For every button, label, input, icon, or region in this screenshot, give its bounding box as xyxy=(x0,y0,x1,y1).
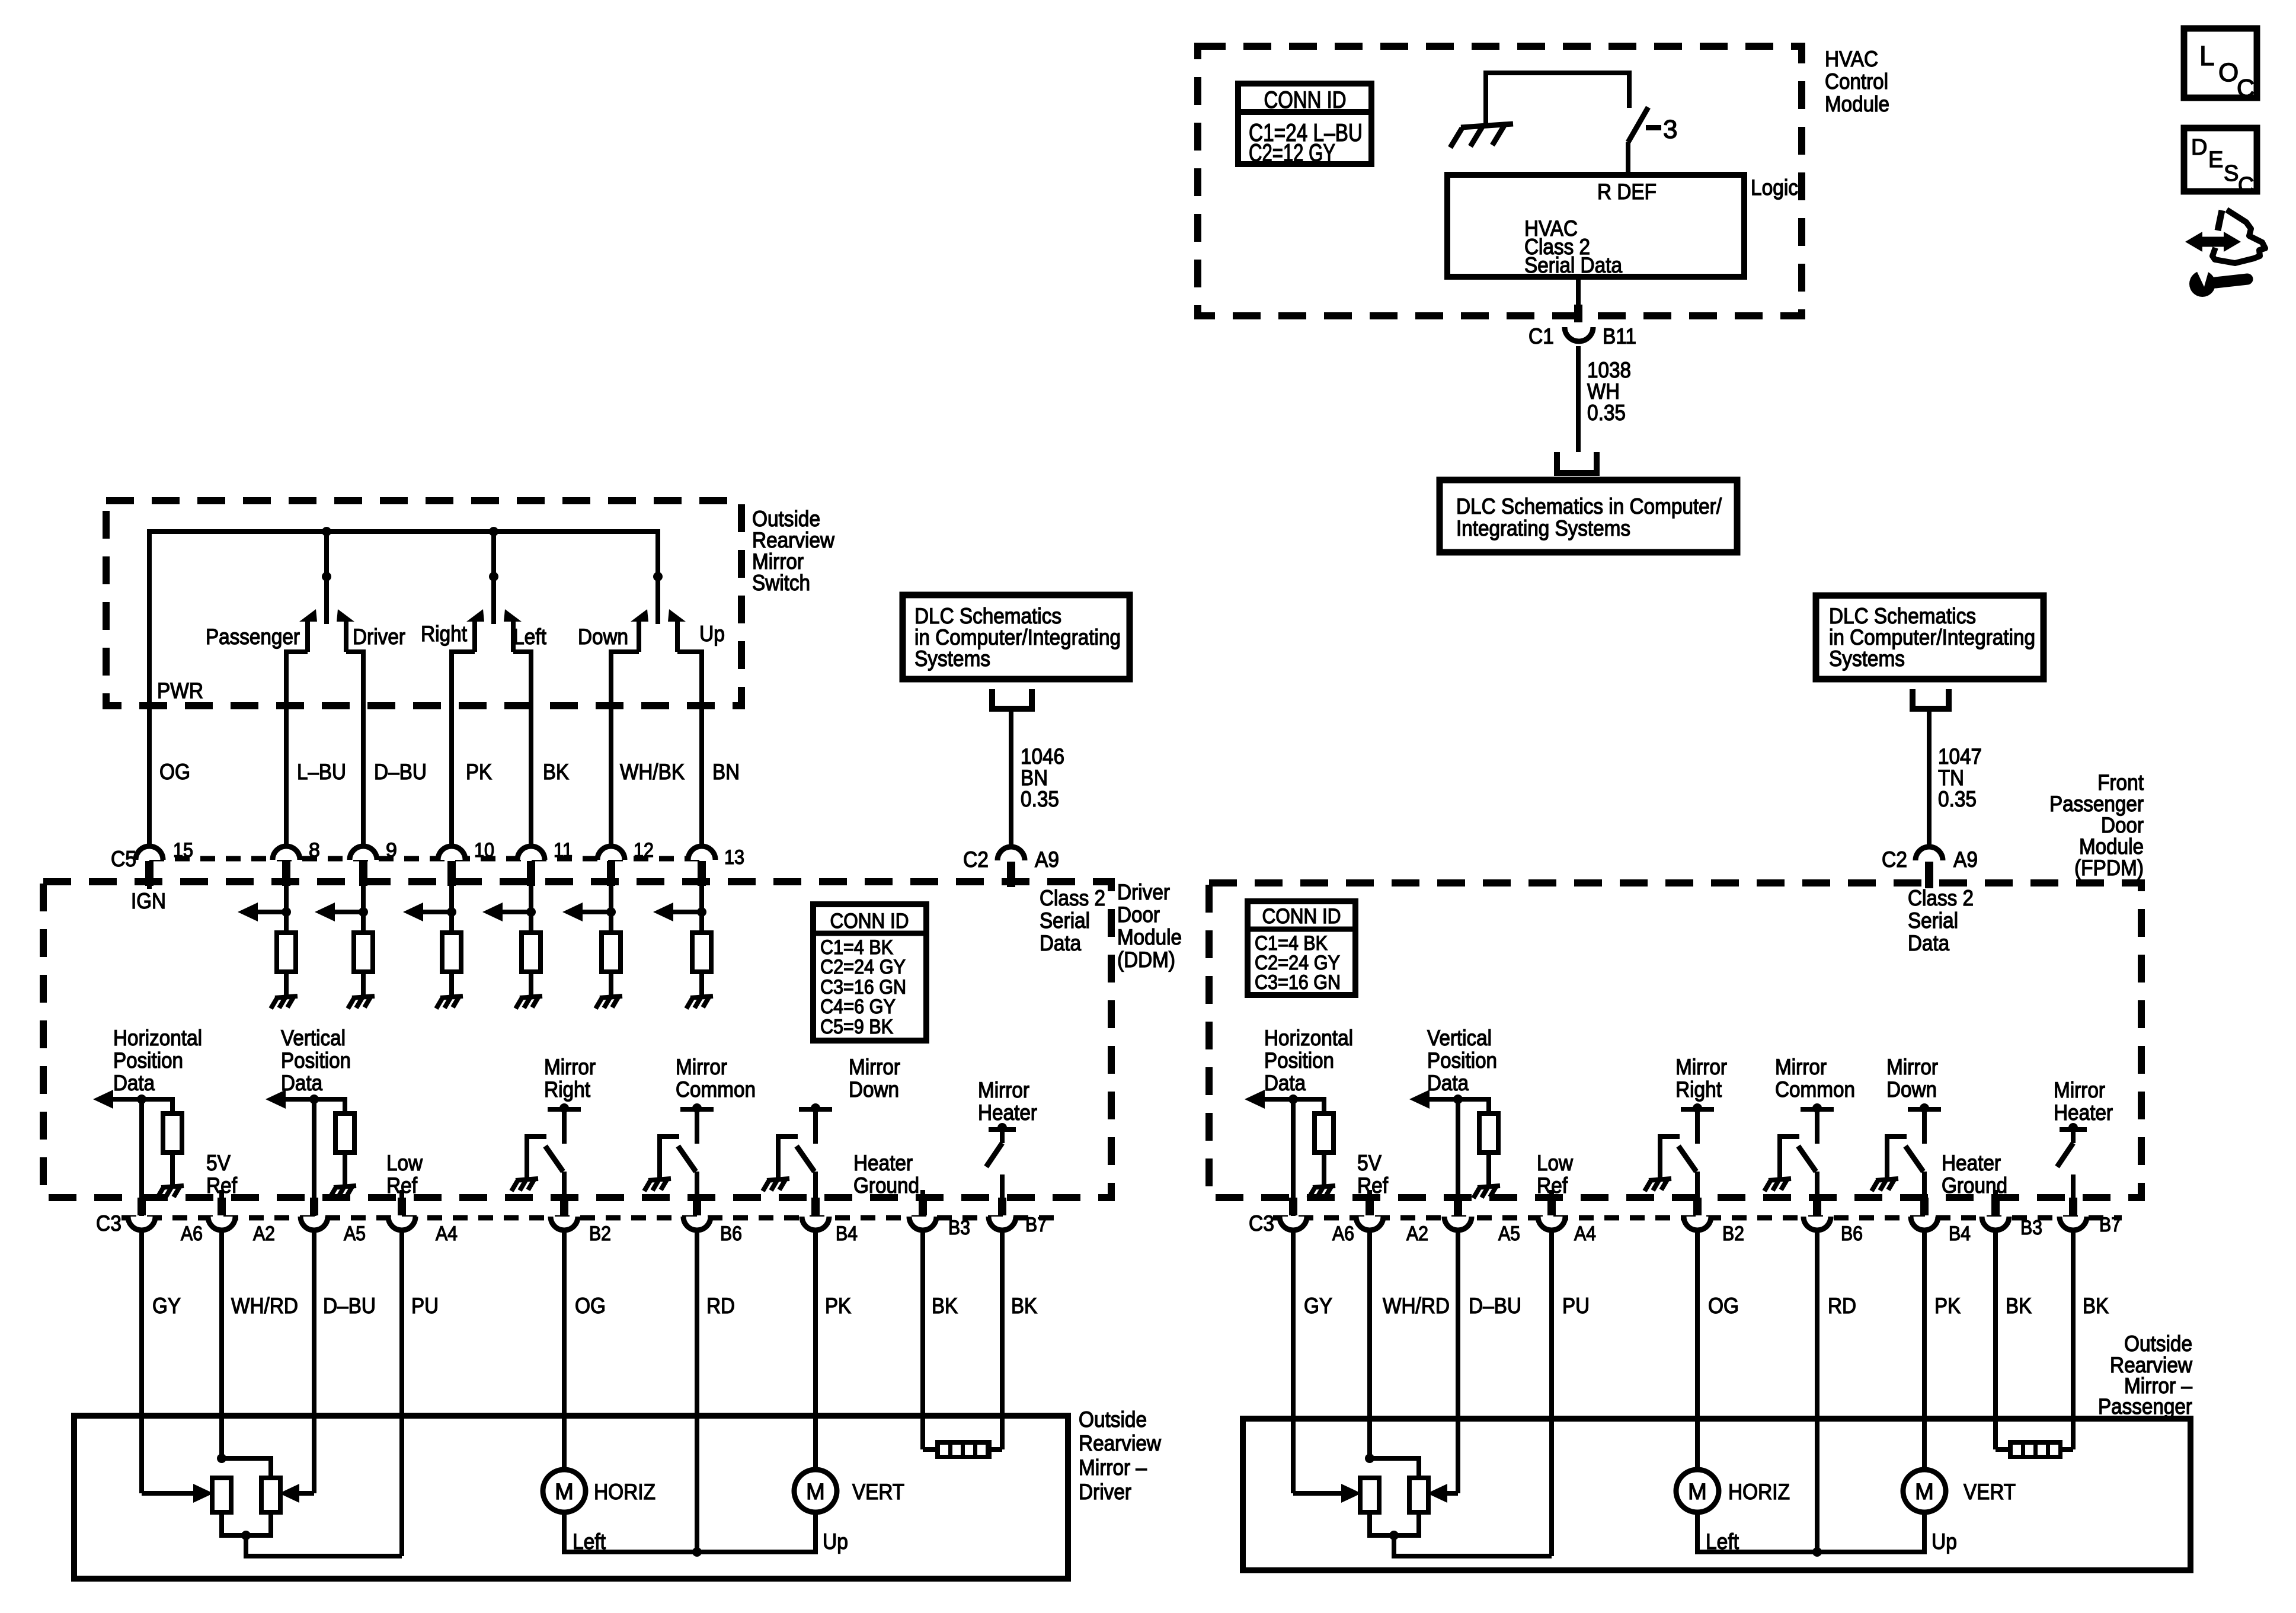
connector pin B4 (DDM) xyxy=(802,1217,829,1230)
wire pot top link (driver) xyxy=(222,1458,271,1478)
svg-text:M: M xyxy=(1915,1480,1934,1505)
svg-text:Systems: Systems xyxy=(1829,647,1905,671)
svg-text:Logic: Logic xyxy=(1751,175,1798,200)
connector pin 11 xyxy=(517,846,545,860)
bracket DLC right xyxy=(1913,689,1949,709)
connector pin A5 (DDM) xyxy=(300,1217,328,1230)
svg-text:B2: B2 xyxy=(1722,1222,1744,1245)
svg-text:Position: Position xyxy=(1427,1048,1497,1073)
svg-text:PWR: PWR xyxy=(157,679,203,703)
Driver Door Module dashed box xyxy=(43,882,1111,1198)
switch Mirror Common (FPDM) xyxy=(1801,1107,1834,1112)
svg-text:GY: GY xyxy=(1304,1294,1332,1318)
wire ground to switch xyxy=(1486,73,1629,126)
junction dot pot bottom (driver) xyxy=(241,1531,251,1540)
connector pin A2 (DDM) xyxy=(208,1217,235,1230)
wire BK (driver mirror) xyxy=(920,1231,925,1449)
svg-text:DLC Schematics: DLC Schematics xyxy=(914,604,1061,628)
svg-text:C1: C1 xyxy=(1528,324,1554,348)
svg-text:Systems: Systems xyxy=(914,647,990,671)
ground (FPDM vertical) xyxy=(1473,1186,1500,1198)
svg-text:Position: Position xyxy=(113,1048,183,1073)
wire BK b7 (passenger mirror) xyxy=(2071,1231,2076,1449)
svg-text:L–BU: L–BU xyxy=(297,760,346,784)
connector C2/A9 (DDM) xyxy=(997,847,1025,860)
svg-text:B6: B6 xyxy=(1841,1222,1863,1245)
connector pin B7 (FPDM) xyxy=(2060,1217,2087,1230)
svg-text:3: 3 xyxy=(1663,115,1677,144)
switch Down (blade + wire to pin 12) xyxy=(631,609,648,622)
svg-text:Heater: Heater xyxy=(1942,1151,2001,1175)
svg-text:12: 12 xyxy=(634,839,654,862)
resistor at x=1184 xyxy=(692,933,711,972)
svg-text:Heater: Heater xyxy=(978,1100,1037,1125)
svg-text:Switch: Switch xyxy=(752,571,810,595)
svg-text:IGN: IGN xyxy=(131,889,166,913)
svg-text:A5: A5 xyxy=(1498,1222,1520,1245)
Outside Rearview Mirror Passenger box xyxy=(1243,1419,2191,1570)
arrow position data (FPDM vertical) xyxy=(1428,1097,1458,1102)
wire pot bottom bar (passenger) xyxy=(1370,1512,1419,1535)
svg-text:OG: OG xyxy=(159,760,190,784)
wire pot bottom bar (driver) xyxy=(222,1512,271,1535)
svg-text:B7: B7 xyxy=(1025,1214,1047,1236)
svg-text:Right: Right xyxy=(544,1077,591,1102)
arrow (output) at x=1031 xyxy=(581,910,611,914)
switch Right (blade + wire to pin 10) xyxy=(466,609,484,622)
motor HORIZ (driver) xyxy=(543,1470,586,1512)
arrow (output) at x=896 xyxy=(501,910,531,914)
svg-text:Heater: Heater xyxy=(2054,1100,2113,1125)
svg-text:HORIZ: HORIZ xyxy=(1728,1480,1790,1504)
wire pin to resistor at x=613 xyxy=(361,883,366,933)
heater element (driver) xyxy=(923,1447,935,1452)
svg-text:Down: Down xyxy=(1886,1077,1937,1102)
CONN ID table (DDM) xyxy=(813,904,926,1041)
switch Mirror Heater (FPDM) xyxy=(2060,1127,2087,1132)
connector C2/A9 (FPDM) xyxy=(1916,847,1943,860)
ground wire at x=483 xyxy=(284,972,289,998)
ground wire at x=896 xyxy=(529,972,533,998)
arrow position data (DDM horizontal) xyxy=(112,1097,142,1102)
connector pin C3-A6 (DDM) xyxy=(128,1217,155,1230)
svg-text:(FPDM): (FPDM) xyxy=(2074,856,2144,880)
svg-text:C: C xyxy=(2237,74,2255,102)
svg-text:Ground: Ground xyxy=(853,1173,919,1198)
ground at x=762 xyxy=(436,996,463,1009)
svg-text:D–BU: D–BU xyxy=(374,760,427,784)
junction dot (FPDM horizontal) xyxy=(1288,1094,1298,1104)
connector pin C3-A6 (FPDM) xyxy=(1280,1217,1307,1230)
svg-text:8: 8 xyxy=(309,839,320,862)
connector bracket to DLC box xyxy=(1557,452,1597,473)
pin line (FPDM bottom row) xyxy=(1273,1215,2122,1221)
wire pot top link (passenger) xyxy=(1370,1458,1419,1478)
connector pin B7 (DDM) xyxy=(989,1217,1016,1230)
svg-text:C: C xyxy=(2238,173,2254,198)
svg-text:A9: A9 xyxy=(1035,847,1059,872)
ground at x=1184 xyxy=(686,996,713,1009)
HVAC Control Module dashed box xyxy=(1198,46,1802,316)
wire 1047 TN 0.35 xyxy=(1927,709,1932,846)
svg-text:Left: Left xyxy=(513,625,547,649)
bracket DLC left xyxy=(992,689,1032,709)
ground wire at x=613 xyxy=(361,972,366,998)
junction dot motor bus (driver) xyxy=(692,1547,702,1557)
svg-text:Up: Up xyxy=(1932,1529,1957,1554)
motor VERT (driver) xyxy=(794,1470,837,1512)
svg-text:Left: Left xyxy=(573,1529,606,1554)
connector pin B4 (FPDM) xyxy=(1911,1217,1938,1230)
resistor (DDM horizontal) xyxy=(163,1113,182,1153)
svg-text:Module: Module xyxy=(1117,925,1182,949)
resistor at x=613 xyxy=(354,933,373,972)
ground wire (DDM horizontal) xyxy=(170,1153,175,1186)
svg-text:GY: GY xyxy=(152,1294,181,1318)
svg-text:VERT: VERT xyxy=(1964,1480,2016,1504)
heater element (passenger) xyxy=(1996,1447,2008,1452)
junction dot motor bus (passenger) xyxy=(1812,1547,1822,1557)
ground (HVAC internal) xyxy=(1450,124,1513,148)
switch Passenger (blade + wire to pin 8) xyxy=(299,609,317,622)
wire WH/RD (driver mirror) xyxy=(219,1231,224,1458)
wire position data pin (DDM horizontal) xyxy=(139,1099,144,1216)
svg-text:9: 9 xyxy=(386,839,397,862)
svg-text:Driver: Driver xyxy=(353,625,405,649)
svg-text:B4: B4 xyxy=(836,1222,858,1245)
svg-text:Common: Common xyxy=(1775,1077,1855,1102)
switch Left (blade + wire to pin 11) xyxy=(504,609,522,622)
svg-text:Position: Position xyxy=(281,1048,351,1073)
resistor pot left (passenger) xyxy=(1360,1478,1379,1512)
svg-text:15: 15 xyxy=(173,839,193,862)
svg-text:1038: 1038 xyxy=(1587,358,1631,382)
svg-text:Mirror –: Mirror – xyxy=(1079,1455,1147,1480)
svg-text:OG: OG xyxy=(1708,1294,1739,1318)
svg-text:C3: C3 xyxy=(96,1211,121,1236)
resistor (DDM vertical) xyxy=(335,1113,354,1153)
svg-text:B6: B6 xyxy=(720,1222,742,1245)
svg-text:BK: BK xyxy=(1011,1294,1037,1318)
junction dot bus 1 xyxy=(322,527,331,536)
svg-text:B7: B7 xyxy=(2099,1214,2121,1236)
switch Driver (blade + wire to pin 9) xyxy=(337,609,354,622)
connector pin B3 (DDM) xyxy=(909,1217,936,1230)
wire GY wiper (passenger) xyxy=(1293,1491,1341,1496)
resistor at x=1031 xyxy=(602,933,621,972)
svg-text:Low: Low xyxy=(386,1151,423,1175)
svg-text:Mirror: Mirror xyxy=(1886,1055,1938,1079)
connector pin A4 (FPDM) xyxy=(1538,1217,1565,1230)
svg-text:5V: 5V xyxy=(1357,1151,1382,1175)
logic box (HVAC Class 2 Serial Data) xyxy=(1447,175,1744,277)
wire D-BU wiper (passenger) xyxy=(1447,1491,1458,1496)
DLC Schematics box (right) xyxy=(1816,596,2044,679)
svg-text:Mirror: Mirror xyxy=(676,1055,727,1079)
svg-text:A5: A5 xyxy=(344,1222,366,1245)
wire PU (passenger mirror) xyxy=(1549,1231,1554,1556)
svg-text:A2: A2 xyxy=(1406,1222,1428,1245)
svg-text:11: 11 xyxy=(554,839,573,862)
Front Passenger Door Module dashed box xyxy=(1209,883,2141,1198)
svg-text:C3=16 GN: C3=16 GN xyxy=(1255,971,1341,994)
svg-text:A6: A6 xyxy=(1332,1222,1354,1245)
svg-text:Up: Up xyxy=(699,622,725,646)
svg-text:CONN ID: CONN ID xyxy=(830,910,909,933)
wire D-BU (passenger mirror) xyxy=(1456,1231,1460,1493)
ground at x=613 xyxy=(348,996,375,1009)
junction dot pot bottom (passenger) xyxy=(1389,1531,1399,1540)
arrow (output) at x=762 xyxy=(422,910,452,914)
connector pin 10 xyxy=(438,846,465,860)
arrow (output) at x=483 xyxy=(257,910,286,914)
LOC icon xyxy=(2184,28,2257,98)
arrow position data (DDM vertical) xyxy=(284,1097,314,1102)
svg-text:R DEF: R DEF xyxy=(1597,180,1657,204)
svg-text:Serial Data: Serial Data xyxy=(1524,253,1622,277)
svg-text:Mirror: Mirror xyxy=(1675,1055,1727,1079)
svg-text:B11: B11 xyxy=(1603,324,1636,348)
svg-text:PK: PK xyxy=(825,1294,851,1318)
wire pin to resistor at x=762 xyxy=(449,883,454,933)
svg-text:in Computer/Integrating: in Computer/Integrating xyxy=(914,625,1121,649)
svg-text:M: M xyxy=(1688,1480,1707,1505)
switch Mirror Down (FPDM) xyxy=(1908,1107,1941,1112)
svg-text:Passenger: Passenger xyxy=(206,625,300,649)
junction dot (FPDM vertical) xyxy=(1453,1094,1463,1104)
svg-text:Down: Down xyxy=(849,1077,899,1102)
stub Heater Ground (FPDM) xyxy=(1993,1190,1998,1198)
supply wire pair 1 xyxy=(324,532,329,624)
svg-text:D: D xyxy=(2191,135,2207,160)
svg-text:Serial: Serial xyxy=(1040,908,1090,933)
wire BK (passenger mirror) xyxy=(1993,1231,1998,1449)
wire 1038 WH 0.35 xyxy=(1576,346,1581,452)
svg-text:Mirror: Mirror xyxy=(849,1055,900,1079)
svg-text:Down: Down xyxy=(578,625,628,649)
svg-text:BK: BK xyxy=(543,760,569,784)
wire GY wiper (driver) xyxy=(142,1491,193,1496)
connector pin B2 (FPDM) xyxy=(1684,1217,1711,1230)
wire pot bottom to Low Ref (driver) xyxy=(246,1535,402,1556)
connector pin B2 (DDM) xyxy=(551,1217,578,1230)
stub 5V Ref (DDM) xyxy=(219,1190,224,1198)
pin line (DDM bottom row) xyxy=(121,1215,1055,1221)
svg-text:Serial: Serial xyxy=(1908,908,1958,933)
switch R DEF (thermal) xyxy=(1628,107,1648,142)
svg-text:A9: A9 xyxy=(1953,847,1978,872)
wire to resistor (FPDM vertical) xyxy=(1458,1099,1489,1113)
svg-text:C3: C3 xyxy=(1249,1211,1274,1236)
svg-text:C2=24 GY: C2=24 GY xyxy=(820,956,906,978)
resistor (FPDM horizontal) xyxy=(1315,1113,1334,1153)
wire to resistor (DDM vertical) xyxy=(314,1099,345,1113)
motor VERT (passenger) xyxy=(1903,1470,1946,1512)
svg-text:B4: B4 xyxy=(1949,1222,1971,1245)
CONN ID table (FPDM) xyxy=(1248,901,1355,995)
ground wire (DDM vertical) xyxy=(343,1153,347,1186)
ground at x=896 xyxy=(516,996,542,1009)
wire PK (driver mirror) xyxy=(813,1231,818,1470)
junction dot bus 2 xyxy=(489,527,498,536)
svg-text:Data: Data xyxy=(113,1071,155,1095)
svg-text:B2: B2 xyxy=(589,1222,611,1245)
svg-text:M: M xyxy=(806,1480,825,1505)
svg-text:Ground: Ground xyxy=(1942,1173,2007,1198)
ground at x=1031 xyxy=(596,996,622,1009)
switch Up (blade + wire to pin 13) xyxy=(668,609,686,622)
wire PK (passenger mirror) xyxy=(1922,1231,1927,1470)
ground (FPDM horizontal) xyxy=(1309,1186,1335,1198)
svg-text:Data: Data xyxy=(281,1071,322,1095)
connector pin B6 (DDM) xyxy=(683,1217,711,1230)
svg-text:A6: A6 xyxy=(181,1222,203,1245)
svg-text:M: M xyxy=(555,1480,574,1505)
svg-text:Up: Up xyxy=(823,1529,848,1554)
svg-text:Low: Low xyxy=(1537,1151,1573,1175)
wire GY (passenger mirror) xyxy=(1291,1231,1296,1493)
svg-text:Class 2: Class 2 xyxy=(1908,886,1974,910)
ground (DDM horizontal) xyxy=(157,1186,184,1198)
svg-text:C2=12 GY: C2=12 GY xyxy=(1249,139,1335,167)
svg-text:Data: Data xyxy=(1264,1071,1306,1095)
svg-text:Horizontal: Horizontal xyxy=(113,1026,202,1050)
svg-text:Ref: Ref xyxy=(386,1173,418,1198)
resistor pot left (driver) xyxy=(212,1478,231,1512)
svg-text:C2: C2 xyxy=(963,847,989,872)
wire pin to resistor at x=896 xyxy=(529,883,533,933)
svg-text:DLC Schematics in Computer/: DLC Schematics in Computer/ xyxy=(1456,494,1722,519)
supply wire pair 2 xyxy=(491,532,496,624)
svg-text:L: L xyxy=(2199,40,2215,71)
svg-text:VERT: VERT xyxy=(852,1480,904,1504)
svg-text:B3: B3 xyxy=(2020,1217,2042,1239)
wire position data pin (FPDM vertical) xyxy=(1456,1099,1460,1216)
wire pin to resistor at x=1031 xyxy=(609,883,613,933)
svg-text:Passenger: Passenger xyxy=(2049,792,2144,816)
supply wire pair 3 xyxy=(655,577,660,624)
svg-text:HVAC: HVAC xyxy=(1825,47,1878,71)
svg-text:(DDM): (DDM) xyxy=(1117,948,1175,972)
switch Mirror Common (DDM) xyxy=(680,1107,714,1112)
svg-text:Horizontal: Horizontal xyxy=(1264,1026,1353,1050)
svg-text:Class 2: Class 2 xyxy=(1040,886,1105,910)
wire RD (driver mirror) xyxy=(695,1231,699,1552)
svg-text:Front: Front xyxy=(2097,770,2144,795)
wire logic box to C1 connector xyxy=(1576,277,1581,318)
connector pin B3 (FPDM) xyxy=(1982,1217,2009,1230)
svg-text:DLC Schematics: DLC Schematics xyxy=(1829,604,1976,628)
wire to resistor (DDM horizontal) xyxy=(142,1099,172,1113)
connector pin C5-15 xyxy=(136,846,163,860)
resistor at x=762 xyxy=(442,933,461,972)
arrow wiper left pot (passenger) xyxy=(1341,1484,1361,1503)
switch Mirror Right (FPDM) xyxy=(1681,1107,1714,1112)
svg-text:Vertical: Vertical xyxy=(1427,1026,1492,1050)
wire GY (driver mirror) xyxy=(139,1231,144,1493)
Outside Rearview Mirror Driver box xyxy=(74,1416,1068,1579)
connector pin A2 (FPDM) xyxy=(1356,1217,1383,1230)
svg-text:A4: A4 xyxy=(436,1222,458,1245)
svg-text:C5=9 BK: C5=9 BK xyxy=(820,1016,893,1038)
svg-text:BN: BN xyxy=(1021,766,1048,790)
resistor at x=896 xyxy=(522,933,541,972)
svg-text:Mirror: Mirror xyxy=(752,549,804,574)
wire D-BU wiper (driver) xyxy=(299,1491,314,1496)
svg-text:D–BU: D–BU xyxy=(323,1294,376,1318)
svg-text:WH/BK: WH/BK xyxy=(620,760,685,784)
svg-text:Control: Control xyxy=(1825,69,1888,94)
svg-text:WH: WH xyxy=(1587,379,1620,404)
svg-text:Ref: Ref xyxy=(206,1173,238,1198)
wire RD (passenger mirror) xyxy=(1815,1231,1819,1552)
wire OG (passenger mirror) xyxy=(1695,1231,1700,1470)
wire IGN stub xyxy=(147,883,152,889)
svg-text:BN: BN xyxy=(712,760,740,784)
motor HORIZ (passenger) xyxy=(1676,1470,1719,1512)
svg-text:1046: 1046 xyxy=(1021,744,1064,769)
wire BK b7 (driver mirror) xyxy=(1000,1231,1005,1449)
ground (DDM vertical) xyxy=(330,1186,356,1198)
stub Low Ref (DDM) xyxy=(399,1190,404,1198)
resistor (FPDM vertical) xyxy=(1479,1113,1498,1153)
svg-text:5V: 5V xyxy=(206,1151,231,1175)
svg-text:Door: Door xyxy=(1117,902,1160,927)
wire D-BU (driver mirror) xyxy=(312,1231,316,1493)
svg-text:1047: 1047 xyxy=(1938,744,1982,769)
switch Mirror Down (DDM) xyxy=(799,1107,832,1112)
svg-text:RD: RD xyxy=(706,1294,735,1318)
resistor at x=483 xyxy=(277,933,296,972)
arrow wiper right pot (passenger) xyxy=(1427,1484,1447,1503)
svg-text:Left: Left xyxy=(1706,1529,1739,1554)
svg-text:Module: Module xyxy=(2079,834,2144,859)
wire OG (PWR to C5-15) xyxy=(147,706,152,845)
svg-text:Mirror: Mirror xyxy=(544,1055,596,1079)
svg-text:B3: B3 xyxy=(948,1217,970,1239)
CONN ID table (HVAC) xyxy=(1238,84,1371,164)
svg-text:Mirror: Mirror xyxy=(978,1078,1029,1102)
connector pin A5 (FPDM) xyxy=(1444,1217,1472,1230)
svg-text:Rearview: Rearview xyxy=(1079,1431,1161,1455)
svg-text:A2: A2 xyxy=(253,1222,275,1245)
svg-text:Ref: Ref xyxy=(1357,1173,1389,1198)
svg-text:Passenger: Passenger xyxy=(2098,1394,2192,1419)
svg-text:0.35: 0.35 xyxy=(1587,401,1626,425)
connector pin B6 (FPDM) xyxy=(1803,1217,1831,1230)
ground wire at x=1184 xyxy=(699,972,704,998)
junction dot pot top (passenger) xyxy=(1365,1454,1374,1463)
svg-text:Vertical: Vertical xyxy=(281,1026,346,1050)
svg-text:RD: RD xyxy=(1828,1294,1856,1318)
arrow position data (FPDM horizontal) xyxy=(1264,1097,1293,1102)
svg-text:in Computer/Integrating: in Computer/Integrating xyxy=(1829,625,2035,649)
svg-text:10: 10 xyxy=(474,839,494,862)
connector C1/B11 xyxy=(1574,305,1582,322)
pin line (DDM top row) xyxy=(149,856,702,862)
junction dot pot top (driver) xyxy=(217,1454,226,1463)
svg-text:Position: Position xyxy=(1264,1048,1334,1073)
svg-text:Ref: Ref xyxy=(1537,1173,1568,1198)
wire pin to resistor at x=1184 xyxy=(699,883,704,933)
svg-text:PK: PK xyxy=(466,760,492,784)
wire PU (driver mirror) xyxy=(399,1231,404,1556)
svg-text:Right: Right xyxy=(1675,1077,1722,1102)
ground at x=483 xyxy=(271,996,298,1009)
svg-text:PU: PU xyxy=(1562,1294,1590,1318)
svg-text:13: 13 xyxy=(724,846,744,869)
svg-text:HORIZ: HORIZ xyxy=(594,1480,655,1504)
